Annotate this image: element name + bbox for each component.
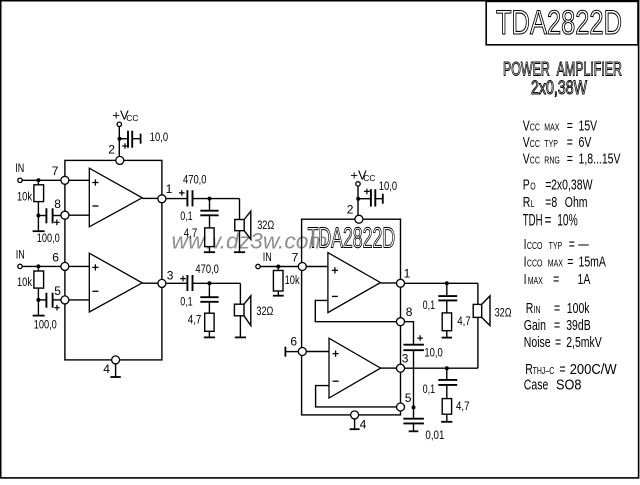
junction IN/R5 (U2) — [276, 265, 280, 269]
resistor R1 10k — [34, 185, 44, 202]
svg-text:IN: IN — [534, 304, 541, 316]
ground speaker LS1 — [239, 231, 241, 253]
svg-text:2: 2 — [347, 203, 354, 217]
ground bar C10 (U2) — [382, 194, 384, 204]
capacitor C1 100,0 — [45, 208, 47, 223]
svg-text:L: L — [531, 198, 535, 210]
svg-text:IN: IN — [16, 249, 25, 261]
svg-text:8: 8 — [406, 305, 413, 319]
wire C1 to pin8 — [53, 215, 61, 217]
wire C2 to pin5 — [53, 299, 61, 301]
op-amp U1B body — [89, 253, 142, 312]
plus mark C10 (U2) — [364, 189, 370, 195]
pin 3 circle (U2) — [397, 364, 405, 372]
svg-text:Noise: Noise — [524, 333, 551, 350]
resistor R3 4,7 — [205, 228, 214, 247]
wire C5 to ground bar (U1) — [132, 138, 140, 140]
pin 2 circle (U1) — [116, 156, 124, 164]
svg-text:7: 7 — [292, 251, 299, 265]
wire pin6 stub — [285, 351, 298, 353]
pin 7 circle (U2) — [298, 263, 306, 271]
wire corner down to speaker A — [239, 199, 241, 220]
svg-text:32Ω: 32Ω — [256, 306, 273, 318]
terminal IN B — [18, 264, 22, 268]
ground R6 — [446, 331, 448, 338]
svg-text:I: I — [524, 252, 527, 269]
wire pin5 junction to C14 — [413, 407, 415, 418]
svg-text:=: = — [567, 252, 573, 269]
terminal +Vcc (U1) — [117, 122, 121, 126]
capacitor C5 10,0 (U1 supply bypass) — [127, 131, 129, 148]
svg-text:10,0: 10,0 — [150, 132, 168, 144]
ground B input — [33, 315, 45, 317]
svg-text:Case: Case — [524, 375, 548, 392]
svg-text:4,7: 4,7 — [456, 401, 470, 413]
plus mark C1 — [54, 220, 60, 226]
resistor R4 4,7 — [205, 313, 214, 331]
junction IN A / R1 — [36, 178, 40, 182]
svg-text:5: 5 — [405, 391, 412, 405]
svg-text:O: O — [530, 180, 536, 192]
plus mark C5 (U1) — [122, 143, 128, 149]
op-amp U2B plus input mark — [333, 351, 339, 357]
wire pin1 to speaker corner — [405, 282, 478, 284]
wire R1 to ground — [37, 202, 39, 231]
svg-text:5: 5 — [54, 284, 61, 298]
spec line 2 — [523, 133, 592, 150]
pin 5 circle (U2) — [397, 403, 405, 411]
svg-text:10%: 10% — [557, 212, 578, 231]
svg-text:MAX: MAX — [544, 121, 559, 133]
capacitor C11 10,0 — [403, 344, 424, 346]
svg-text:TDA2822D: TDA2822D — [308, 223, 396, 255]
svg-text:=: = — [555, 333, 561, 350]
wire pin3 to speaker corner — [405, 367, 478, 369]
svg-text:100,0: 100,0 — [34, 319, 57, 331]
wire +Vcc to pin2 (U1) — [118, 127, 120, 157]
terminator bar pin6 (U2) — [284, 347, 286, 357]
svg-text:RNG: RNG — [544, 154, 560, 166]
pin 5 circle (U1) — [61, 296, 69, 304]
wire C6 to R3 — [209, 215, 211, 228]
speaker LS2 — [234, 304, 244, 316]
spec line 3 — [523, 150, 621, 167]
svg-text:2,5mkV: 2,5mkV — [566, 333, 602, 350]
svg-text:MAX: MAX — [548, 257, 563, 269]
wire C7 to R4 — [208, 302, 210, 313]
wire feedback U2B — [316, 386, 397, 407]
wire corner down to speaker (U2) — [477, 283, 479, 304]
wire C12 to R6 — [446, 300, 448, 313]
svg-text:CC: CC — [530, 154, 540, 166]
op-amp U2A minus input mark — [332, 295, 338, 297]
IC U1 outline box — [65, 160, 162, 360]
wire pin6 to op-amp U2B — [306, 351, 329, 353]
svg-text:—: — — [578, 235, 589, 252]
wire R1 top — [37, 182, 39, 185]
svg-text:=: = — [567, 133, 573, 150]
svg-text:10k: 10k — [285, 275, 300, 287]
op-amp U1A body — [89, 168, 142, 227]
svg-text:1A: 1A — [578, 270, 591, 287]
capacitor C4 470,0 — [186, 275, 188, 291]
plus mark C2 — [54, 305, 60, 311]
svg-text:4,7: 4,7 — [184, 228, 198, 240]
wire +Vcc to pin2 (U2) — [357, 186, 359, 216]
spec line 8 — [524, 252, 607, 269]
svg-text:I: I — [524, 235, 527, 252]
svg-text:4: 4 — [103, 362, 110, 376]
svg-text:CC: CC — [530, 121, 540, 133]
junction R1/C1 — [36, 214, 40, 218]
op-amp U1B plus input mark — [92, 264, 98, 270]
pin 8 circle (U1) — [61, 211, 69, 219]
wire junction to C10 (U2) — [358, 198, 370, 200]
pin 3 circle (U1) — [158, 279, 166, 287]
junction IN B / R2 — [36, 264, 40, 268]
svg-text:8: 8 — [54, 197, 61, 211]
junction pin1/C12 — [445, 281, 449, 285]
svg-text:=: = — [569, 235, 575, 252]
op-amp U2A plus input mark — [332, 267, 338, 273]
svg-text:10k: 10k — [17, 277, 32, 289]
svg-text:1: 1 — [166, 182, 173, 196]
svg-text:100,0: 100,0 — [37, 233, 60, 245]
wire feedback U2A — [315, 300, 397, 321]
spec line 7 — [524, 235, 589, 252]
svg-text:1: 1 — [404, 267, 411, 281]
wire op-amp U2B to pin3 — [381, 367, 397, 369]
capacitor C10 10,0 (U2 supply bypass) — [370, 189, 372, 206]
svg-text:CC: CC — [363, 173, 375, 183]
svg-text:39dB: 39dB — [566, 316, 591, 333]
svg-text:=: = — [554, 316, 560, 333]
ground pin4 (U2) — [354, 419, 356, 429]
resistor R6 4,7 — [442, 313, 451, 331]
wire junction to C13 — [446, 368, 448, 380]
spec line 9 — [524, 270, 591, 287]
wire op-amp U1B to pin3 — [142, 282, 158, 284]
ground speaker LS2 — [239, 316, 241, 338]
svg-text:Gain: Gain — [524, 316, 546, 333]
svg-text:0,01: 0,01 — [425, 430, 444, 442]
svg-text:15mA: 15mA — [579, 252, 607, 269]
wire junction B to C7 — [208, 283, 210, 297]
svg-text:I: I — [524, 270, 527, 287]
svg-text:0,1: 0,1 — [423, 384, 436, 396]
plus mark C11 — [417, 335, 423, 341]
op-amp U1B minus input mark — [92, 290, 98, 292]
svg-text:=: = — [553, 270, 559, 287]
spec line 6 — [523, 212, 578, 231]
wire speaker to pin3 wire (U2) — [477, 317, 479, 368]
svg-text:CC: CC — [530, 138, 540, 150]
resistor R5 10k — [273, 271, 283, 292]
junction +Vcc/C10 (U2) — [356, 197, 360, 201]
svg-text:10,0: 10,0 — [424, 348, 442, 360]
svg-text:P: P — [523, 176, 530, 193]
svg-text:0,1: 0,1 — [180, 297, 193, 309]
terminal IN A — [18, 178, 22, 182]
wire R2 top — [37, 268, 39, 271]
svg-text:3: 3 — [402, 351, 409, 365]
wire op-amp U1A to pin1 — [142, 197, 158, 199]
resistor R7 4,7 — [442, 399, 451, 415]
ground pin4 (U1) — [115, 364, 117, 377]
junction pin3/C13 — [445, 366, 449, 370]
wire pin8 to op-amp U1A — [69, 214, 89, 216]
svg-text:TDH: TDH — [523, 212, 543, 231]
svg-text:1,8...15V: 1,8...15V — [579, 150, 621, 167]
resistor R2 10k — [34, 271, 44, 288]
wire pin8 to C11 — [405, 322, 414, 345]
wire IN B to pin6 — [22, 265, 61, 267]
svg-text:=: = — [567, 150, 573, 167]
spec line 14 — [524, 375, 582, 392]
svg-text:4,7: 4,7 — [457, 316, 471, 328]
capacitor C14 0,01 — [403, 418, 424, 420]
junction +Vcc/C5 (U1) — [118, 137, 122, 141]
op-amp U1A plus input mark — [92, 179, 98, 185]
wire corner down to speaker B — [239, 283, 241, 304]
terminal +Vcc (U2) — [356, 182, 360, 186]
svg-text:TDA2822D: TDA2822D — [496, 4, 622, 42]
svg-text:0,1: 0,1 — [423, 300, 436, 312]
svg-text:V: V — [523, 133, 530, 150]
svg-text:Ohm: Ohm — [565, 193, 588, 210]
spec line 12 — [524, 333, 602, 350]
wire R5 top — [277, 269, 279, 271]
svg-text:100k: 100k — [567, 299, 590, 316]
svg-text:10k: 10k — [17, 191, 32, 203]
wire C4 to speaker corner B — [193, 282, 241, 284]
wire pin5 to op-amp U1B — [69, 299, 89, 301]
svg-text:470,0: 470,0 — [183, 174, 207, 186]
capacitor C6 0,1 — [200, 210, 218, 212]
op-amp U2B minus input mark — [333, 380, 339, 382]
wire op-amp U2A to pin1 — [381, 282, 397, 284]
spec line 5 — [523, 193, 588, 210]
wire C3 to speaker corner A — [193, 198, 240, 200]
wire C10 to ground bar (U2) — [375, 198, 382, 200]
svg-text:6: 6 — [52, 251, 59, 265]
wire IN to pin7 (U2) — [260, 266, 298, 268]
junction output A — [208, 197, 212, 201]
speaker LS3 — [473, 304, 482, 317]
svg-text:32Ω: 32Ω — [495, 308, 512, 320]
pin 6 circle (U2) — [298, 348, 306, 356]
svg-text:3: 3 — [167, 269, 174, 283]
ground R5 — [277, 291, 279, 296]
svg-text:CCO: CCO — [527, 257, 543, 269]
svg-text:4,7: 4,7 — [188, 314, 202, 326]
capacitor C2 100,0 — [45, 293, 47, 308]
svg-text:7: 7 — [52, 164, 59, 178]
svg-text:=: = — [554, 299, 560, 316]
svg-text:6V: 6V — [579, 133, 592, 150]
svg-text:470,0: 470,0 — [195, 264, 219, 276]
wire pin6 to op-amp U1B — [69, 265, 89, 267]
svg-text:2x0,38W: 2x0,38W — [551, 176, 593, 193]
wire pin3 to C4 — [166, 282, 187, 284]
op-amp U2A body — [328, 253, 381, 313]
svg-text:2: 2 — [108, 142, 115, 156]
capacitor C13 0,1 — [438, 379, 457, 381]
spec line 4 — [523, 176, 593, 193]
svg-text:=: = — [567, 116, 573, 133]
svg-text:15V: 15V — [579, 116, 598, 133]
wire pin1 to C3 — [166, 198, 187, 200]
op-amp U1A minus input mark — [92, 205, 98, 207]
wire junction A to C6 — [209, 199, 211, 211]
wire pin7 to op-amp U2A — [306, 266, 328, 268]
pin 4 circle (U2) — [351, 411, 359, 419]
pin 8 circle (U2) — [397, 318, 405, 326]
svg-text:=: = — [545, 212, 552, 231]
pin 6 circle (U1) — [61, 262, 69, 270]
svg-text:CC: CC — [126, 113, 138, 123]
speaker LS1 — [235, 220, 244, 231]
capacitor C3 470,0 — [186, 190, 188, 206]
svg-text:0,1: 0,1 — [180, 211, 193, 223]
ground R3 — [209, 247, 211, 253]
svg-text:IN: IN — [15, 163, 24, 175]
junction pin5/C14 — [412, 405, 416, 409]
spec line 11 — [524, 316, 591, 333]
svg-text:TYP: TYP — [544, 138, 558, 150]
svg-text:2x0,38W: 2x0,38W — [531, 77, 587, 99]
svg-text:R: R — [526, 299, 534, 316]
terminal IN (U2) — [256, 264, 260, 268]
pin 2 circle (U2) — [355, 215, 363, 223]
svg-text:R: R — [523, 193, 531, 210]
svg-text:V: V — [523, 116, 530, 133]
ground R4 — [208, 331, 210, 337]
plus mark C4 — [180, 276, 186, 282]
title box — [486, 1, 638, 44]
ground R7 — [446, 414, 448, 422]
wire junction to C2 — [38, 299, 45, 301]
ground A input — [33, 230, 45, 232]
pin 1 circle (U2) — [397, 279, 405, 287]
IC U2 outline box — [302, 219, 401, 415]
svg-text:=8: =8 — [545, 193, 557, 210]
ground bar C5 (U1) — [140, 134, 142, 144]
svg-text:SO8: SO8 — [556, 375, 581, 392]
capacitor C7 0,1 — [200, 296, 218, 298]
wire junction to C1 — [38, 215, 45, 217]
svg-text:6: 6 — [290, 334, 297, 348]
wire C13 to R7 — [446, 385, 448, 399]
svg-text:10,0: 10,0 — [379, 181, 397, 193]
svg-text:IN: IN — [263, 252, 272, 264]
svg-text:MAX: MAX — [528, 275, 543, 287]
wire junction to C12 — [446, 283, 448, 296]
spec line 1 — [523, 116, 598, 133]
pin 4 circle (U1) — [112, 356, 120, 364]
junction R2/C2 — [36, 298, 40, 302]
plus mark C3 — [179, 190, 185, 196]
spec line 10 — [526, 299, 590, 316]
pin 1 circle (U1) — [158, 195, 166, 203]
svg-text:V: V — [523, 150, 530, 167]
junction output B — [207, 281, 211, 285]
svg-text:32Ω: 32Ω — [257, 220, 274, 232]
spec line 13 — [525, 360, 617, 377]
op-amp U2B body — [329, 338, 381, 398]
svg-text:4: 4 — [360, 417, 367, 431]
wire R2 to ground — [37, 288, 39, 315]
pin 7 circle (U1) — [61, 176, 69, 184]
wire pin7 to op-amp U1A — [69, 179, 89, 181]
svg-text:THJ–C: THJ–C — [533, 365, 555, 377]
svg-text:CCO: CCO — [527, 240, 543, 252]
wire IN A to pin7 — [22, 179, 61, 181]
capacitor C12 0,1 — [438, 295, 457, 297]
wire C11 down to pin5 node — [413, 350, 415, 407]
wire junction to C5 (U1) — [120, 138, 128, 140]
ground C14 — [413, 423, 415, 431]
svg-text:TYP: TYP — [549, 240, 563, 252]
